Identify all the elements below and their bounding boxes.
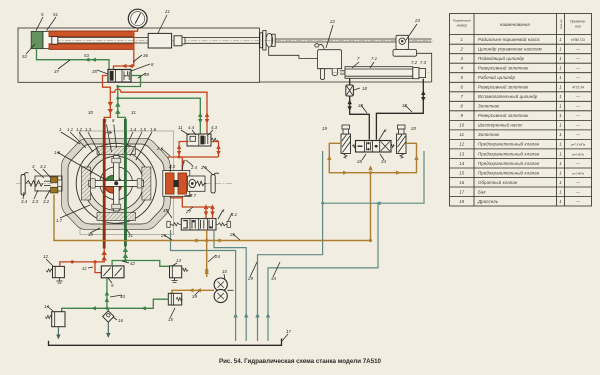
- svg-text:—: —: [575, 94, 581, 99]
- svg-text:1: 1: [559, 132, 562, 137]
- parts table: [450, 14, 592, 207]
- pump eccentric center: [104, 175, 122, 193]
- svg-text:р=1 МПа: р=1 МПа: [571, 171, 584, 175]
- svg-text:Шестеренный насос: Шестеренный насос: [478, 123, 523, 128]
- svg-text:3.2: 3.2: [43, 199, 50, 204]
- red loop 35: [103, 76, 111, 121]
- brown main line 25 26: [54, 195, 372, 243]
- svg-text:1: 1: [559, 151, 562, 156]
- svg-text:1.1: 1.1: [67, 127, 74, 132]
- svg-text:11: 11: [178, 125, 183, 130]
- svg-text:1.7: 1.7: [56, 218, 63, 223]
- gear pump 10: [214, 278, 233, 303]
- pilot signal line 32: [376, 79, 425, 140]
- svg-text:Золотник: Золотник: [478, 104, 500, 109]
- svg-text:номер: номер: [457, 24, 467, 28]
- svg-text:12: 12: [459, 142, 465, 147]
- svg-text:30: 30: [88, 110, 93, 115]
- svg-text:3.4: 3.4: [21, 199, 28, 204]
- throttle valve 18: [346, 78, 354, 96]
- svg-text:—: —: [575, 189, 581, 194]
- svg-text:1.5: 1.5: [140, 127, 147, 132]
- svg-text:1: 1: [559, 199, 562, 204]
- carriage bracket 22: [315, 44, 342, 80]
- svg-text:4: 4: [461, 66, 464, 71]
- red feed 2.7 to valve 4: [168, 195, 215, 219]
- green return from valve 15: [62, 299, 169, 312]
- svg-text:—: —: [575, 180, 581, 185]
- svg-text:9: 9: [461, 113, 464, 118]
- svg-text:Реверсивный золотник: Реверсивный золотник: [478, 66, 529, 71]
- green link 42 valve 9 to valve 13: [112, 246, 169, 266]
- svg-text:10: 10: [222, 269, 227, 274]
- brown branch to gear pump 10: [205, 230, 209, 277]
- svg-text:19: 19: [322, 126, 327, 131]
- svg-text:1: 1: [559, 66, 562, 71]
- svg-text:21: 21: [164, 9, 170, 14]
- pump boundary frame: [80, 131, 174, 235]
- svg-text:Предохранительный клапан: Предохранительный клапан: [478, 170, 540, 175]
- svg-text:7: 7: [461, 94, 464, 99]
- svg-text:14: 14: [459, 161, 465, 166]
- svg-text:2.4: 2.4: [190, 165, 198, 170]
- svg-text:—: —: [575, 66, 581, 71]
- svg-text:35: 35: [92, 69, 97, 74]
- svg-text:Рабочий цилиндр: Рабочий цилиндр: [478, 75, 516, 80]
- brown suction to valve 15: [172, 288, 214, 293]
- svg-text:—: —: [575, 123, 581, 128]
- svg-text:3.1: 3.1: [40, 164, 47, 169]
- svg-text:Предохранительный клапан: Предохранительный клапан: [478, 142, 540, 147]
- svg-text:31: 31: [131, 110, 136, 115]
- svg-text:—: —: [575, 199, 581, 204]
- svg-text:31: 31: [128, 233, 133, 238]
- svg-text:11: 11: [459, 132, 464, 137]
- svg-text:10: 10: [459, 123, 465, 128]
- svg-text:18: 18: [459, 199, 465, 204]
- svg-text:52: 52: [22, 54, 27, 59]
- svg-text:1: 1: [559, 75, 562, 80]
- svg-text:22: 22: [329, 19, 335, 24]
- red pump outlet to valves 12 9: [60, 248, 107, 273]
- thick pump line 30 red: [104, 102, 113, 249]
- svg-text:14: 14: [44, 304, 49, 309]
- green riser 40 from valve 9: [105, 278, 109, 310]
- svg-text:1: 1: [559, 85, 562, 90]
- svg-text:1: 1: [559, 180, 562, 185]
- svg-text:1.2: 1.2: [76, 127, 83, 132]
- green control line to valve 11: [116, 97, 202, 134]
- svg-text:36: 36: [143, 53, 148, 58]
- svg-text:1: 1: [559, 56, 562, 61]
- svg-text:4.3: 4.3: [211, 125, 218, 130]
- frame box upper-left: [18, 28, 432, 82]
- svg-text:2.3: 2.3: [168, 164, 176, 169]
- teal drains of valve 4: [171, 230, 247, 341]
- svg-text:ние: ние: [575, 25, 581, 29]
- svg-text:1: 1: [559, 161, 562, 166]
- svg-text:2: 2: [460, 47, 464, 52]
- svg-text:15: 15: [168, 317, 173, 322]
- table rows text: [459, 37, 585, 204]
- spool valve 9: [101, 266, 124, 278]
- radial piston pump 1 housing: [62, 139, 170, 230]
- check valve 16: [103, 308, 114, 338]
- svg-text:8: 8: [461, 104, 464, 109]
- svg-text:1: 1: [559, 189, 562, 194]
- brown pilot loop around valve 6: [327, 143, 418, 240]
- relief valve 12: [46, 266, 64, 283]
- directional valve 4: [167, 219, 231, 230]
- pilot signal line 33: [348, 96, 370, 140]
- svg-text:1.3: 1.3: [85, 127, 92, 132]
- red gauge pipe 36: [114, 28, 138, 70]
- teal drain from pilot valves: [258, 151, 425, 341]
- spool valve 11: [187, 134, 218, 146]
- svg-text:15: 15: [459, 170, 465, 175]
- pump intake port lines: [103, 125, 117, 153]
- svg-text:—: —: [575, 132, 581, 137]
- svg-text:1: 1: [559, 104, 562, 109]
- pilot valve 20: [397, 125, 407, 158]
- svg-text:16: 16: [459, 180, 465, 185]
- svg-text:42: 42: [130, 261, 135, 266]
- svg-text:—: —: [575, 161, 581, 166]
- svg-text:—: —: [575, 104, 581, 109]
- svg-text:Примеча-: Примеча-: [570, 20, 587, 24]
- svg-text:12: 12: [43, 254, 48, 259]
- svg-text:4Г72-34: 4Г72-34: [572, 86, 584, 90]
- svg-text:НПМ-713: НПМ-713: [571, 38, 585, 42]
- svg-text:Радиально-поршневой насос: Радиально-поршневой насос: [478, 37, 541, 42]
- pilot valve 19: [341, 125, 351, 158]
- pump centerline: [16, 182, 232, 184]
- svg-text:1: 1: [559, 37, 562, 42]
- svg-text:3.3: 3.3: [32, 199, 39, 204]
- svg-text:13: 13: [459, 151, 465, 156]
- svg-text:Дроссель: Дроссель: [477, 199, 499, 204]
- svg-text:1: 1: [559, 170, 562, 175]
- green loop 58: [116, 76, 140, 121]
- pump control cylinder 2 right assembly: [163, 171, 219, 197]
- headstock chuck: [260, 30, 275, 50]
- svg-text:58: 58: [144, 72, 149, 77]
- spool valve 8: [108, 70, 131, 83]
- svg-text:1.6: 1.6: [150, 127, 157, 132]
- feed cylinder 3 left assembly: [21, 173, 62, 195]
- reversing valve 6: [353, 141, 395, 153]
- svg-text:Реверсивный золотник: Реверсивный золотник: [478, 85, 529, 90]
- svg-text:Цилиндр управления насосом: Цилиндр управления насосом: [478, 47, 542, 52]
- auxiliary cylinder 7: [340, 67, 426, 79]
- svg-text:1: 1: [559, 123, 562, 128]
- svg-text:р=7,5 МПа: р=7,5 МПа: [570, 143, 586, 147]
- svg-text:Предохранительный клапан: Предохранительный клапан: [478, 151, 540, 156]
- svg-text:16: 16: [118, 318, 123, 323]
- working cylinder 5: [31, 31, 172, 49]
- bed rails: [269, 39, 432, 82]
- svg-text:—: —: [575, 47, 581, 52]
- pressure gauge: [128, 9, 147, 30]
- green pipe 37 53 from cylinder cap: [37, 49, 110, 70]
- svg-text:7.3: 7.3: [420, 60, 427, 65]
- svg-text:37: 37: [54, 69, 59, 74]
- piston rod coupling 21: [148, 33, 259, 48]
- svg-text:3: 3: [461, 56, 464, 61]
- svg-text:26: 26: [229, 232, 235, 237]
- svg-text:24: 24: [214, 254, 220, 259]
- svg-text:1: 1: [559, 94, 562, 99]
- svg-text:р=5 МПа: р=5 МПа: [571, 152, 584, 156]
- svg-text:Реверсивный золотник: Реверсивный золотник: [478, 113, 529, 118]
- teal tank arrows: [233, 313, 270, 318]
- tank line 17: [49, 339, 282, 346]
- svg-text:51: 51: [53, 12, 58, 17]
- labels top right: [322, 18, 427, 164]
- svg-text:34: 34: [271, 276, 276, 281]
- labels bottom: [43, 254, 291, 334]
- svg-text:наименование: наименование: [500, 22, 531, 27]
- svg-text:40: 40: [120, 294, 125, 299]
- svg-text:32: 32: [402, 103, 407, 108]
- pump rotor rings: [76, 143, 156, 223]
- svg-text:Вспомогательный цилиндр: Вспомогательный цилиндр: [478, 94, 538, 99]
- svg-text:Рис. 54. Гидравлическая схема: Рис. 54. Гидравлическая схема станка мод…: [219, 358, 382, 365]
- svg-text:27: 27: [185, 209, 191, 214]
- svg-text:2.1: 2.1: [156, 146, 164, 151]
- svg-text:—: —: [575, 56, 581, 61]
- svg-text:1: 1: [559, 47, 562, 52]
- svg-text:23: 23: [414, 18, 420, 23]
- svg-text:7.2: 7.2: [411, 60, 418, 65]
- svg-text:7.1: 7.1: [371, 56, 378, 61]
- relief valve 15: [168, 293, 182, 305]
- svg-text:4.1: 4.1: [231, 212, 238, 217]
- pump piston cross: [89, 156, 144, 211]
- svg-text:4.2: 4.2: [163, 208, 170, 213]
- svg-text:Порядковый: Порядковый: [453, 19, 471, 23]
- thick pump line 31 green: [115, 102, 125, 247]
- svg-text:6: 6: [461, 85, 464, 90]
- red link valve 11 to pump control cylinder 2: [168, 142, 221, 173]
- cylinder 7 centerline: [333, 72, 429, 74]
- svg-text:Золотник: Золотник: [478, 132, 500, 137]
- svg-text:17: 17: [459, 189, 465, 194]
- svg-text:18: 18: [362, 86, 367, 91]
- svg-text:Обратный клапан: Обратный клапан: [478, 180, 518, 185]
- svg-text:Кол-во: Кол-во: [559, 19, 563, 29]
- svg-text:28: 28: [356, 159, 362, 164]
- labels pump area: [21, 110, 238, 238]
- svg-text:Бак: Бак: [478, 189, 486, 194]
- svg-text:1: 1: [461, 37, 464, 42]
- pump line 31 overlay: [124, 131, 127, 240]
- svg-text:53: 53: [84, 53, 89, 58]
- svg-text:13: 13: [176, 258, 181, 263]
- support 23: [393, 35, 417, 56]
- svg-text:1: 1: [559, 142, 562, 147]
- labels top left: [22, 9, 170, 77]
- relief valve 13: [170, 266, 189, 283]
- svg-text:—: —: [575, 75, 581, 80]
- svg-text:41: 41: [82, 266, 87, 271]
- svg-text:17: 17: [286, 329, 291, 334]
- svg-text:39: 39: [192, 294, 197, 299]
- svg-text:4.4: 4.4: [188, 125, 195, 130]
- svg-text:5: 5: [461, 75, 464, 80]
- pump line 30 overlay: [103, 131, 106, 240]
- svg-text:1: 1: [559, 113, 562, 118]
- svg-text:—: —: [575, 113, 581, 118]
- svg-text:20: 20: [410, 126, 416, 131]
- svg-text:Предохранительный клапан: Предохранительный клапан: [478, 161, 540, 166]
- svg-text:1.4: 1.4: [130, 127, 137, 132]
- svg-text:Подводящий цилиндр: Подводящий цилиндр: [478, 56, 525, 61]
- centerline lathe axis: [44, 39, 433, 41]
- red control line 27 to valve 11: [110, 89, 209, 134]
- relief valve 14: [45, 312, 65, 340]
- label leaders top left: [26, 15, 167, 78]
